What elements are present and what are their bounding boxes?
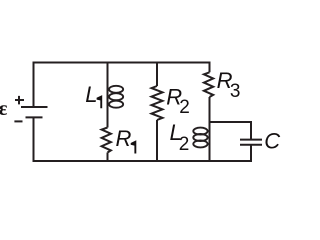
svg-text:3: 3 — [230, 81, 241, 102]
svg-text:R: R — [116, 126, 132, 151]
svg-text:C: C — [264, 128, 280, 153]
svg-text:L: L — [85, 82, 97, 107]
svg-text:ε: ε — [0, 98, 8, 120]
svg-text:2: 2 — [179, 97, 190, 118]
svg-text:2: 2 — [179, 134, 190, 155]
